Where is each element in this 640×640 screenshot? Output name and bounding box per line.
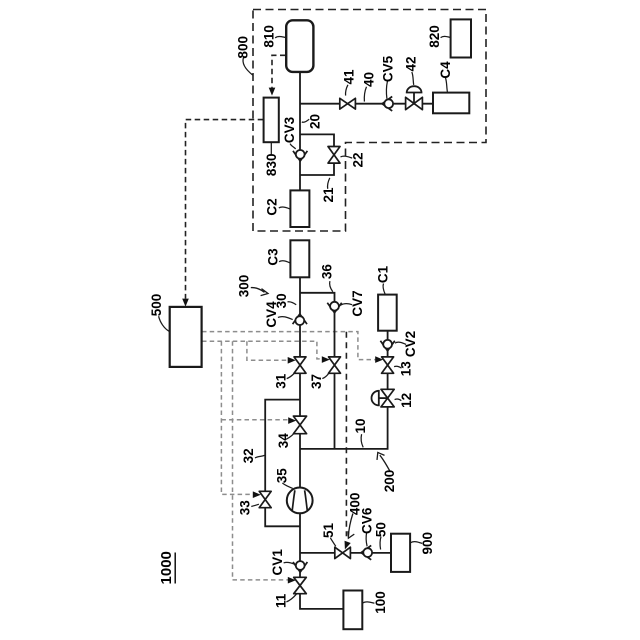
valve 33: [259, 491, 271, 507]
unit 820: [451, 19, 471, 57]
svg-text:CV5: CV5: [381, 55, 396, 82]
wire valve 11 to tank 100: [300, 593, 344, 609]
wire from container C3 down to valve 31: [299, 277, 301, 357]
control branch spur to valve 34: [221, 419, 288, 421]
svg-text:37: 37: [309, 374, 324, 389]
wire compressor 35 to bottom corner: [299, 512, 301, 577]
leader of label 37: [322, 374, 328, 379]
underline of label 1000: [174, 553, 176, 584]
check valve CV5: [382, 97, 393, 111]
svg-text:32: 32: [241, 448, 256, 463]
curved arrow of label 200: [380, 455, 390, 470]
leader of label 22: [341, 156, 353, 158]
leader of label 10: [361, 434, 363, 447]
valve 51: [335, 547, 351, 558]
leader of label 800: [243, 58, 253, 76]
svg-text:900: 900: [420, 532, 435, 555]
svg-text:42: 42: [404, 56, 419, 71]
svg-text:C2: C2: [264, 198, 279, 215]
valve 34: [293, 416, 306, 434]
leader of label 36: [330, 281, 333, 292]
valve 37: [329, 357, 341, 373]
svg-text:200: 200: [382, 470, 397, 493]
svg-text:13: 13: [399, 361, 414, 377]
arrowhead into 830: [269, 88, 276, 96]
leader of label 500: [159, 316, 170, 331]
wire valve 34 to compressor 35: [299, 433, 301, 489]
svg-text:36: 36: [319, 264, 334, 280]
leader of label 50: [379, 537, 382, 550]
svg-text:11: 11: [274, 593, 289, 608]
leader of label CV4: [278, 317, 293, 320]
svg-text:C4: C4: [438, 61, 453, 79]
control branch to valves 34 and 33: [221, 341, 252, 494]
svg-text:C1: C1: [376, 265, 391, 283]
enclosure 800 dashed boundary: [253, 10, 486, 232]
svg-text:41: 41: [342, 69, 357, 85]
arrowhead into valve 51: [342, 541, 351, 551]
svg-text:CV2: CV2: [403, 331, 418, 357]
leader of label 11: [286, 594, 296, 602]
wire valve 37 down to line 10: [334, 373, 336, 449]
leader of label 21: [328, 178, 330, 189]
svg-text:C3: C3: [266, 248, 281, 266]
leader of label CV1: [284, 562, 296, 564]
check valve CV7: [327, 302, 341, 313]
svg-text:10: 10: [353, 418, 368, 433]
arrowhead into valve 13: [375, 356, 383, 363]
svg-text:1000: 1000: [158, 551, 175, 584]
leader of label 33: [251, 504, 259, 506]
svg-text:CV7: CV7: [350, 290, 365, 316]
leader of label 32: [255, 455, 265, 458]
dashed arrow line 810 to 830: [272, 55, 286, 88]
leader of label 35: [282, 483, 292, 489]
wire valve 12 to container C1: [387, 331, 389, 390]
leader of label 810: [275, 37, 285, 38]
svg-text:21: 21: [321, 187, 336, 203]
leader of label CV7: [340, 304, 352, 306]
svg-text:50: 50: [373, 522, 388, 537]
leader of label C1: [383, 284, 385, 295]
control branch to valve 11: [233, 341, 289, 580]
svg-text:300: 300: [237, 275, 252, 298]
tank 810: [286, 20, 313, 72]
svg-text:22: 22: [351, 152, 366, 167]
actuator dome of valve 42: [407, 86, 422, 103]
arrowhead into valve 11: [288, 577, 296, 584]
leader of label 34: [284, 433, 294, 440]
leader of label CV5: [385, 81, 388, 98]
svg-text:CV4: CV4: [264, 301, 279, 328]
leader of label 42: [412, 72, 414, 85]
control valve 12: [381, 389, 394, 407]
check valve CV1: [293, 561, 307, 572]
unit 830: [264, 98, 279, 143]
leader of label CV6: [365, 532, 368, 546]
svg-text:810: 810: [262, 25, 277, 48]
controller 500: [170, 307, 202, 367]
arrowhead into valve 31: [288, 357, 296, 364]
svg-text:31: 31: [274, 373, 289, 389]
svg-text:51: 51: [321, 523, 336, 539]
leader of label 40: [364, 87, 366, 102]
svg-text:100: 100: [373, 591, 388, 614]
wire from tank 810 down to container C2: [299, 70, 301, 190]
control valve 42: [406, 97, 423, 109]
dashed line 400 to valve 51: [345, 332, 347, 536]
leader of label 830: [270, 143, 272, 155]
leader of label 41: [346, 85, 348, 96]
wire bypass loop 21 with valve 22: [300, 134, 334, 175]
svg-text:20: 20: [308, 114, 323, 129]
check valve CV2: [380, 340, 394, 351]
svg-text:34: 34: [276, 433, 291, 449]
check valve CV6: [361, 545, 372, 559]
wire branch 32 lower segment: [265, 508, 299, 527]
control line A from 500 to valve 13: [202, 332, 376, 360]
wire valve 31 to valve 34: [299, 373, 301, 417]
svg-text:12: 12: [399, 393, 414, 408]
leader of label C4: [445, 78, 447, 92]
arrowhead into valve 33: [253, 491, 261, 498]
leader of label C3: [279, 261, 290, 263]
wire line 10 horizontal: [300, 407, 388, 449]
container C4: [433, 93, 469, 114]
arrowhead into valve 34: [288, 417, 296, 424]
svg-text:35: 35: [275, 468, 290, 484]
check valve CV3: [293, 150, 307, 161]
check valve CV4: [293, 314, 307, 325]
unit 900: [391, 534, 410, 572]
valve 22: [328, 147, 340, 164]
container C2: [290, 190, 309, 227]
leader of label C2: [279, 207, 290, 209]
leader of label 900: [411, 542, 423, 544]
arrow leader of label 400: [349, 514, 353, 536]
control branch to valve 31: [247, 341, 288, 360]
control line B from 500 to valve 37: [202, 341, 322, 359]
container C1: [378, 295, 397, 331]
svg-text:40: 40: [362, 72, 377, 87]
leader of label CV3: [290, 144, 296, 149]
svg-text:820: 820: [427, 25, 442, 48]
svg-text:500: 500: [149, 294, 164, 317]
wire bottom horizontal to unit 900: [300, 552, 391, 554]
leader of label 13: [394, 366, 401, 368]
leader of label 30: [288, 302, 297, 305]
actuator dome of valve 12: [372, 391, 388, 406]
svg-text:CV1: CV1: [270, 549, 285, 576]
svg-text:830: 830: [264, 154, 279, 177]
leader of label 51: [330, 538, 335, 546]
compressor 35: [287, 488, 313, 514]
curved arrow of label 300: [251, 288, 265, 293]
leader of label 31: [287, 374, 294, 379]
arrowhead into valve 37: [322, 356, 330, 363]
wire branch 36 to check valve CV7 and valve 37: [300, 293, 335, 357]
leader of label 820: [441, 36, 450, 37]
valve 13: [382, 357, 394, 373]
leader of label 20: [302, 119, 309, 122]
valve 31: [294, 357, 306, 373]
leader of label 12: [395, 399, 402, 401]
valve 11: [294, 577, 307, 593]
dashed arrow line 830 to 500: [186, 120, 264, 299]
tank 100: [343, 591, 362, 630]
wire top horizontal run to container C4: [300, 103, 433, 105]
leader of label CV2: [395, 342, 406, 344]
container C3: [290, 240, 309, 277]
svg-text:800: 800: [235, 36, 250, 59]
svg-text:33: 33: [238, 500, 253, 516]
arrowhead into 500: [182, 299, 189, 307]
valve 41: [340, 98, 356, 109]
wire branch 32 upper segment: [265, 400, 300, 491]
leader of label 100: [363, 602, 375, 603]
svg-text:CV3: CV3: [282, 116, 297, 143]
